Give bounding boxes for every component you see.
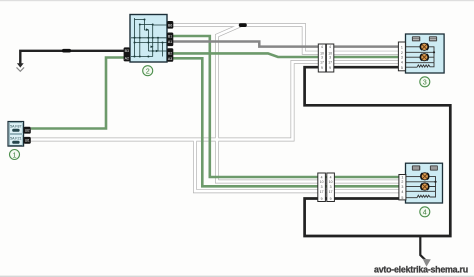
svg-text:5: 5	[401, 196, 403, 200]
lamp4 top labels	[412, 165, 420, 170]
svg-text:10: 10	[329, 180, 333, 184]
bulb (tail) in lamp 3	[420, 43, 428, 50]
bulb (fog) in lamp 4	[421, 183, 429, 190]
item number 3	[420, 77, 430, 87]
svg-text:Ш1: Ш1	[25, 139, 30, 143]
svg-text:3: 3	[401, 56, 403, 60]
svg-text:17: 17	[329, 190, 333, 194]
wire: green A2 relay to fuse box	[31, 58, 124, 129]
svg-text:2: 2	[146, 67, 150, 76]
svg-text:3: 3	[321, 56, 323, 60]
svg-text:5: 5	[401, 66, 403, 70]
svg-text:9: 9	[321, 197, 323, 201]
svg-text:B2: B2	[168, 51, 172, 55]
relay right pin strip	[167, 21, 173, 62]
relay unit box U2	[130, 15, 167, 63]
svg-text:17: 17	[320, 190, 324, 194]
svg-text:17: 17	[320, 61, 324, 65]
wire: gray A1 relay to lamp3 pin1	[173, 42, 399, 47]
svg-text:Ш2: Ш2	[25, 129, 30, 133]
svg-text:5A F21: 5A F21	[10, 137, 21, 141]
lamp3 internal wiring	[406, 47, 435, 67]
relay left pin strip	[124, 47, 130, 61]
svg-text:3: 3	[329, 56, 331, 60]
svg-text:4: 4	[401, 190, 403, 194]
ground symbol	[17, 63, 24, 67]
svg-text:A1: A1	[168, 40, 172, 44]
bulb (fog) in lamp 3	[420, 54, 428, 61]
svg-text:1: 1	[13, 150, 17, 159]
wire: green A3 relay to lamp4 pin3	[173, 58, 399, 186]
wire: green B1 relay to lamp4 pin1	[173, 36, 399, 177]
svg-text:B3: B3	[125, 49, 129, 53]
svg-text:1: 1	[401, 45, 403, 49]
svg-text:5A F87: 5A F87	[10, 125, 21, 129]
svg-text:9: 9	[330, 197, 332, 201]
splice on ground wire	[62, 49, 71, 53]
wire: green B2 relay to lamp3 pin3	[173, 53, 399, 57]
svg-text:A3: A3	[168, 57, 172, 61]
splice on white wire B	[239, 23, 247, 27]
svg-text:4: 4	[329, 45, 331, 49]
lamp3 top labels	[412, 36, 420, 41]
svg-text:4: 4	[423, 208, 427, 217]
svg-text:9: 9	[329, 66, 331, 70]
fuse box pin strip	[24, 127, 31, 134]
wire: ground spur to body	[420, 236, 426, 261]
wire: white wire A from fuse F21 to connectors (outline)	[31, 25, 399, 191]
svg-text:4: 4	[330, 176, 332, 180]
lamp4 internal wiring	[406, 177, 436, 198]
item number 2	[143, 66, 153, 76]
wire: black ground from relay B3	[20, 51, 124, 64]
svg-text:1: 1	[401, 176, 403, 180]
lamp unit 3	[406, 34, 445, 73]
svg-text:3: 3	[321, 185, 323, 189]
lamp3 pin strip	[398, 42, 405, 71]
svg-text:3: 3	[330, 185, 332, 189]
lamp4 pin strip	[399, 175, 406, 200]
svg-text:B1: B1	[168, 34, 172, 38]
svg-text:2: 2	[401, 51, 403, 55]
lamp unit 4	[406, 163, 443, 203]
svg-text:2: 2	[401, 180, 403, 184]
connector block C1 left half	[318, 44, 334, 72]
svg-text:A2: A2	[125, 56, 129, 60]
item number 1	[10, 150, 20, 160]
wire: white cores	[31, 25, 399, 191]
svg-text:B6: B6	[168, 23, 172, 27]
svg-text:4: 4	[401, 61, 403, 65]
svg-text:10: 10	[320, 180, 324, 184]
svg-text:3: 3	[423, 78, 427, 87]
svg-text:3: 3	[401, 185, 403, 189]
fuse box item 1	[8, 122, 24, 147]
connector block C2 left half	[318, 173, 335, 202]
svg-text:4: 4	[321, 176, 323, 180]
svg-text:9: 9	[321, 66, 323, 70]
item number 4	[420, 207, 430, 217]
wire: black ground loop lamps	[305, 67, 451, 236]
svg-text:17: 17	[328, 61, 332, 65]
svg-text:avto-elektrika-shema.ru: avto-elektrika-shema.ru	[374, 264, 468, 274]
relay internals	[131, 18, 167, 57]
svg-text:4: 4	[321, 45, 323, 49]
bulb (tail) in lamp 4	[421, 173, 429, 180]
